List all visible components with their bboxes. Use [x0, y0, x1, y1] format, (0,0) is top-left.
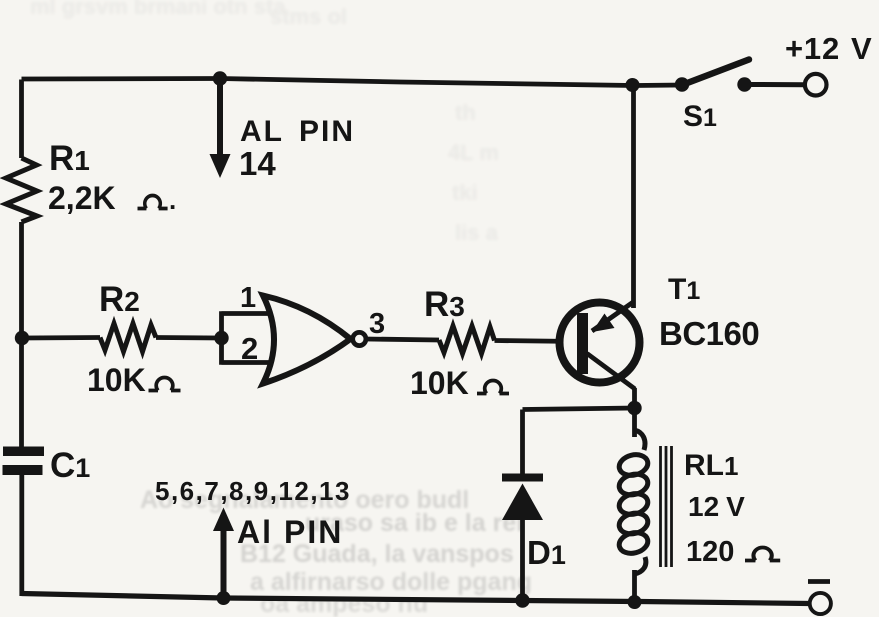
svg-text:R3: R3 [424, 285, 465, 324]
svg-text:R2: R2 [99, 280, 140, 319]
wire: from R2 to gate input bracket [156, 335, 222, 340]
gate U1 NOR (inputs tied) body [263, 296, 351, 384]
wire: left vertical, top corner down to R1 [19, 80, 24, 159]
svg-text:R1: R1 [49, 139, 90, 178]
svg-text:120: 120 [686, 536, 734, 568]
resistor R2 [100, 324, 156, 352]
node: junction on bottom rail at Al PIN arrow [217, 591, 231, 605]
transistor T1 collector [587, 354, 635, 390]
arrow to Al PIN (pins 5,6,7,8,9,12,13) [213, 508, 234, 599]
inverter bubble on gate output [353, 332, 366, 345]
svg-text:12V: 12V [688, 491, 745, 522]
wire: mid horizontal from left wire to R2 [22, 335, 100, 340]
svg-text:oa ampeso nu: oa ampeso nu [260, 590, 428, 617]
node: junction on left wire at mid wire [15, 331, 29, 345]
wire: relay coil to bottom rail [632, 570, 637, 602]
svg-text:T1: T1 [668, 273, 700, 306]
label pin 1 [240, 282, 256, 314]
terminal +12V [805, 74, 827, 96]
node: collector junction [627, 401, 641, 415]
wire: left vertical between R1 and C1 [19, 222, 24, 449]
svg-text:+12V: +12V [785, 31, 872, 66]
label 5,6,7,8,9,12,13 [155, 476, 351, 506]
svg-text:3: 3 [369, 308, 385, 340]
svg-text:B12 Guada, la vanspos: B12 Guada, la vanspos [240, 540, 514, 568]
svg-text:4L m: 4L m [448, 140, 499, 165]
wire: top rail from top-left corner to switch S1 [22, 79, 684, 86]
capacitor C1 [3, 447, 45, 476]
terminal minus [810, 593, 831, 614]
label pin 3 [369, 308, 385, 340]
wire: input bracket tying pins 1 and 2 [222, 311, 273, 364]
transistor T1 circle [560, 303, 640, 383]
label 2,2K ohm value of R1 [48, 180, 176, 216]
label 12 V [688, 491, 745, 522]
node: junction on top rail at transistor wire [626, 78, 640, 92]
label AL PIN [240, 115, 355, 148]
label BC160 [659, 315, 759, 352]
label RL1 [684, 449, 738, 482]
label 10K ohm value of R3 [410, 365, 509, 401]
label 120 ohm [686, 536, 780, 568]
relay RL1 coil [617, 430, 650, 574]
svg-text:S1: S1 [683, 100, 717, 133]
switch S1 left contact [675, 77, 689, 91]
node: junction relay to bottom rail [628, 595, 642, 609]
page bleed-through text (decorative, faint) [140, 486, 532, 617]
wire: diode branch vertical upper [520, 410, 525, 475]
wire: gate output to R3 [366, 339, 439, 340]
svg-text:.: . [169, 185, 176, 215]
svg-text:th: th [455, 100, 476, 125]
wire: diode branch vertical lower [520, 520, 525, 601]
wire: junction down to relay coil [632, 408, 637, 437]
wire: vertical from top rail to transistor emitter [631, 86, 636, 309]
wire: R3 to transistor base [495, 341, 579, 342]
relay RL1 core lines [661, 446, 672, 567]
label minus sign [808, 579, 830, 584]
label T1 [668, 273, 700, 306]
svg-text:10K: 10K [87, 362, 146, 398]
label C1 [50, 446, 90, 485]
transistor T1 emitter with arrow (PNP) [592, 302, 634, 333]
label Al PIN [237, 514, 343, 550]
node: junction on top rail feeding AL PIN arrow [213, 71, 227, 85]
label S1 [683, 100, 717, 133]
svg-text:14: 14 [239, 145, 276, 182]
node: junction diode to bottom rail [515, 593, 529, 607]
wire: bottom rail [22, 594, 810, 604]
svg-text:1: 1 [240, 282, 256, 314]
label R1 [49, 139, 90, 178]
label 14 [239, 145, 276, 182]
svg-text:2,2K: 2,2K [48, 180, 116, 216]
svg-text:BC160: BC160 [659, 315, 759, 352]
wire: collector down to junction [632, 388, 637, 408]
wire: switch to +12V terminal [745, 82, 806, 87]
switch S1 lever [682, 60, 749, 86]
diode D1 cathode bar [502, 474, 543, 482]
wire: left vertical below C1 to bottom rail [19, 472, 24, 596]
label pin 2 [241, 331, 258, 366]
label D1 [527, 534, 566, 571]
svg-text:AlPIN: AlPIN [237, 514, 343, 550]
svg-text:ml grsvm brmani otn sta: ml grsvm brmani otn sta [30, 0, 286, 19]
svg-text:lis a: lis a [455, 220, 499, 245]
label +12V [785, 31, 872, 66]
arrow to AL PIN 14 [210, 79, 231, 178]
svg-text:D1: D1 [527, 534, 566, 571]
resistor R3 [439, 326, 495, 354]
node: junction at gate input bracket [214, 331, 228, 345]
resistor R1 [6, 158, 37, 222]
switch S1 right contact [737, 77, 751, 91]
wire: horizontal to diode branch [523, 408, 635, 410]
label R2 [99, 280, 140, 319]
svg-text:stms ol: stms ol [270, 4, 347, 29]
svg-text:2: 2 [241, 331, 258, 366]
label 10K ohm value of R2 [87, 362, 181, 398]
diode D1 triangle [502, 484, 543, 521]
transistor T1 base bar [577, 313, 588, 374]
svg-text:tki: tki [452, 180, 478, 205]
svg-text:10K: 10K [410, 365, 469, 401]
label R3 [424, 285, 465, 324]
svg-text:5,6,7,8,9,12,13: 5,6,7,8,9,12,13 [155, 476, 351, 506]
svg-text:RL1: RL1 [684, 449, 738, 482]
